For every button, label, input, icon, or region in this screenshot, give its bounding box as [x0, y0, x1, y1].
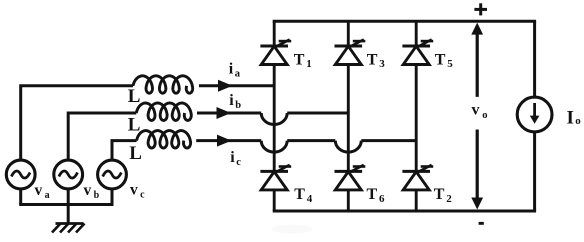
AC source v_c — [98, 160, 127, 189]
svg-text:o: o — [482, 110, 487, 121]
svg-text:T: T — [434, 186, 445, 203]
thyristor T1 gate — [277, 40, 290, 47]
svg-text:3: 3 — [379, 58, 385, 70]
thyristor T1 triangle — [261, 46, 287, 64]
wire phase a — [21, 86, 133, 160]
svg-text:T: T — [435, 52, 446, 69]
wire column T5/T2 — [415, 21, 418, 46]
thyristor T5 triangle — [403, 46, 429, 64]
svg-text:T: T — [294, 52, 305, 69]
thyristor T6 gate — [351, 165, 364, 172]
crossover hop (phase c over T3 column) — [335, 141, 361, 153]
inductor L (phase b) — [136, 103, 191, 120]
svg-text:T: T — [367, 52, 378, 69]
crossover hop (phase b over T1 column) — [261, 113, 287, 125]
faint caption remnant — [272, 225, 312, 234]
svg-text:6: 6 — [379, 193, 385, 205]
svg-text:v: v — [35, 182, 43, 199]
thyristor T3 cathode bar — [335, 45, 363, 48]
svg-text:5: 5 — [447, 58, 453, 70]
thyristor T4 cathode bar — [260, 170, 288, 173]
wire source bottoms to neutral — [19, 189, 22, 205]
thyristor T4 triangle — [261, 172, 287, 190]
thyristor T6 triangle — [335, 172, 361, 190]
thyristor T5 cathode bar — [402, 45, 430, 48]
svg-text:o: o — [575, 115, 581, 127]
wire top rail (+ bus) — [273, 20, 536, 23]
thyristor T3 gate — [351, 40, 364, 47]
thyristor T2 triangle — [403, 172, 429, 190]
svg-text:v: v — [84, 182, 92, 199]
wire to ground — [67, 205, 70, 224]
svg-text:L: L — [128, 86, 141, 107]
svg-text:v: v — [472, 102, 480, 119]
thyristor T1 cathode bar — [260, 45, 288, 48]
svg-text:a: a — [45, 190, 50, 201]
svg-text:i: i — [230, 149, 235, 166]
svg-text:b: b — [235, 100, 241, 111]
label + — [474, 8, 487, 11]
wire right branch — [533, 21, 536, 211]
svg-text:v: v — [130, 182, 138, 199]
thyristor T2 gate — [419, 165, 432, 172]
crossover hop (phase c over T1 column) — [261, 141, 287, 153]
svg-text:T: T — [294, 186, 305, 203]
wire column T1/T4 — [273, 21, 276, 46]
svg-text:4: 4 — [307, 193, 313, 205]
wire phase c — [112, 141, 137, 161]
wire column T3/T6 — [347, 21, 350, 46]
svg-text:L: L — [128, 114, 141, 135]
label - — [479, 222, 484, 225]
svg-text:c: c — [236, 157, 241, 168]
wire phase b — [68, 113, 136, 160]
thyristor T3 triangle — [335, 46, 361, 64]
svg-text:c: c — [140, 190, 145, 201]
svg-text:I: I — [567, 108, 574, 129]
svg-text:a: a — [235, 69, 241, 80]
svg-text:T: T — [367, 186, 378, 203]
inductor L (phase a) — [133, 76, 193, 93]
thyristor T4 gate — [277, 165, 290, 172]
AC source v_a — [6, 160, 35, 189]
thyristor T5 gate — [419, 40, 432, 47]
svg-text:2: 2 — [446, 193, 452, 205]
ground — [52, 224, 85, 233]
svg-text:1: 1 — [306, 58, 312, 70]
current arrow i_c — [217, 135, 232, 147]
wire bottom rail (- bus) — [273, 210, 536, 213]
current arrow i_b — [217, 107, 232, 119]
thyristor T2 cathode bar — [402, 170, 430, 173]
node v_o arrow — [476, 31, 479, 97]
svg-text:b: b — [94, 190, 100, 201]
thyristor T6 cathode bar — [335, 170, 363, 173]
svg-text:i: i — [229, 92, 234, 109]
svg-text:L: L — [129, 143, 142, 164]
svg-text:i: i — [229, 61, 234, 78]
wire neutral line — [19, 203, 113, 206]
inductor L (phase c) — [137, 131, 191, 148]
current source I_o — [517, 97, 552, 132]
current arrow i_a — [218, 80, 233, 92]
AC source v_b — [54, 160, 83, 189]
